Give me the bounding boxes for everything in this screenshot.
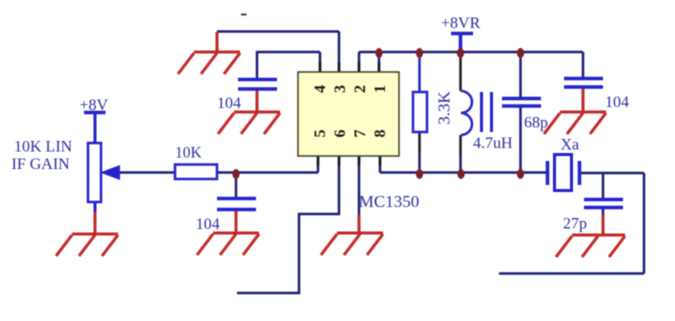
svg-text:6: 6 — [332, 130, 349, 138]
svg-text:5: 5 — [312, 130, 329, 138]
svg-text:104: 104 — [605, 94, 629, 111]
svg-text:IF GAIN: IF GAIN — [12, 156, 71, 173]
svg-text:+8V: +8V — [80, 97, 109, 114]
svg-text:104: 104 — [217, 95, 241, 112]
svg-text:10K: 10K — [175, 145, 203, 162]
svg-text:10K LIN: 10K LIN — [14, 139, 73, 156]
svg-text:8: 8 — [372, 130, 389, 138]
svg-text:27p: 27p — [563, 216, 587, 233]
svg-text:3: 3 — [332, 85, 349, 93]
svg-text:MC1350: MC1350 — [359, 192, 419, 211]
svg-text:+8VR: +8VR — [441, 15, 481, 32]
svg-text:1: 1 — [372, 85, 389, 93]
svg-text:3.3K: 3.3K — [435, 91, 454, 125]
svg-text:Xa: Xa — [561, 137, 580, 154]
svg-text:4: 4 — [312, 85, 329, 93]
svg-text:104: 104 — [196, 216, 220, 233]
svg-text:4.7uH: 4.7uH — [473, 135, 513, 152]
svg-text:2: 2 — [352, 85, 369, 93]
svg-text:68p: 68p — [524, 115, 548, 132]
svg-text:7: 7 — [352, 130, 369, 138]
